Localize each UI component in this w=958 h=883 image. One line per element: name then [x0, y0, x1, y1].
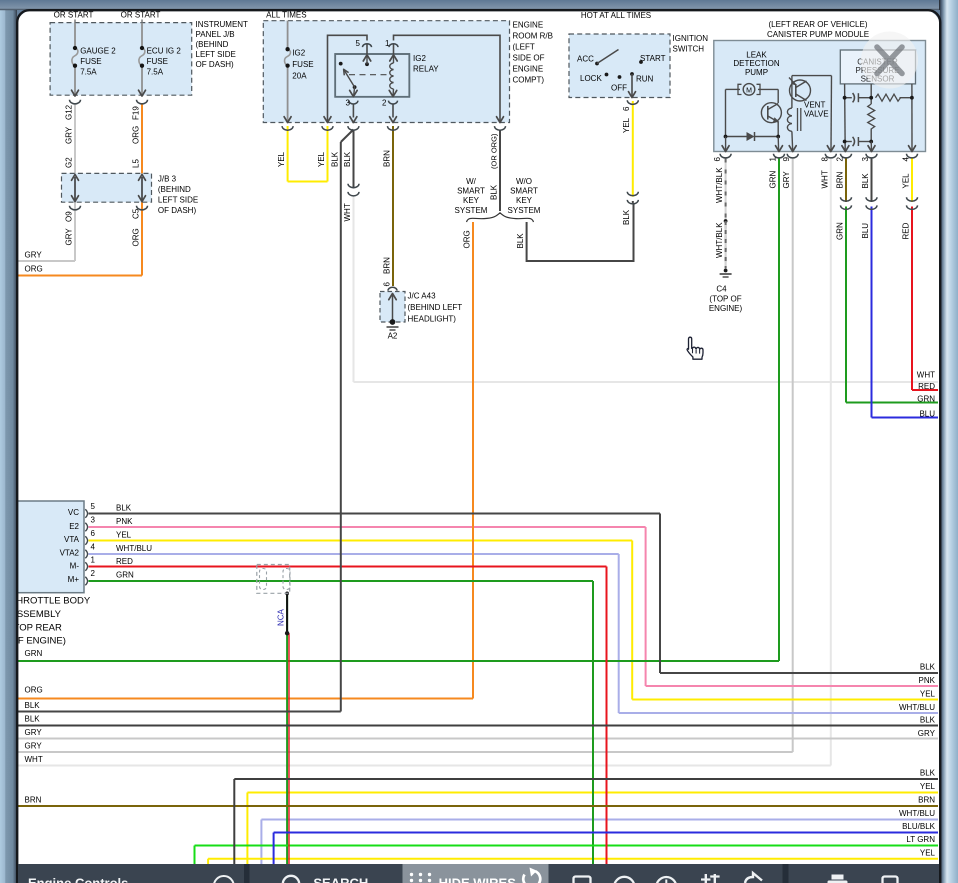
svg-text:OF ENGINE): OF ENGINE): [11, 636, 66, 647]
svg-text:FUSE: FUSE: [80, 57, 101, 66]
svg-text:6: 6: [383, 282, 392, 287]
svg-text:YEL: YEL: [116, 530, 132, 539]
svg-text:BLK: BLK: [920, 716, 936, 725]
svg-text:CANISTER PUMP MODULE: CANISTER PUMP MODULE: [767, 30, 869, 39]
svg-text:GRY: GRY: [25, 742, 43, 751]
svg-text:KEY: KEY: [516, 196, 533, 205]
svg-text:VTA: VTA: [64, 535, 80, 544]
svg-text:OR START: OR START: [54, 11, 94, 20]
svg-text:LEFT SIDE: LEFT SIDE: [196, 50, 236, 59]
svg-text:ROOM R/B: ROOM R/B: [513, 32, 553, 41]
svg-text:O9: O9: [65, 211, 74, 222]
svg-text:7.5A: 7.5A: [80, 68, 97, 77]
svg-text:BRN: BRN: [383, 150, 392, 167]
svg-text:M+: M+: [68, 575, 80, 584]
svg-text:ORG: ORG: [132, 228, 141, 246]
svg-text:A2: A2: [388, 332, 398, 341]
svg-text:GRY: GRY: [25, 728, 43, 737]
svg-text:SYSTEM: SYSTEM: [508, 206, 541, 215]
svg-text:OF DASH): OF DASH): [196, 60, 235, 69]
svg-text:YEL: YEL: [920, 849, 936, 858]
svg-text:ORG: ORG: [463, 230, 472, 248]
svg-text:PNK: PNK: [116, 517, 133, 526]
svg-text:F19: F19: [132, 106, 141, 120]
svg-text:J/B 3: J/B 3: [158, 175, 177, 184]
svg-text:GRY: GRY: [782, 171, 791, 189]
svg-text:DETECTION: DETECTION: [733, 59, 779, 68]
svg-text:4: 4: [902, 157, 911, 162]
svg-text:GAUGE 2: GAUGE 2: [80, 47, 116, 56]
svg-text:BRN: BRN: [835, 171, 844, 188]
svg-text:1: 1: [385, 39, 390, 48]
svg-text:BRN: BRN: [25, 796, 42, 805]
svg-text:WHT: WHT: [25, 755, 43, 764]
svg-text:ENGINE: ENGINE: [513, 65, 544, 74]
svg-text:WHT/BLU: WHT/BLU: [116, 544, 152, 553]
svg-text:5: 5: [91, 502, 96, 511]
svg-text:(LEFT REAR OF VEHICLE): (LEFT REAR OF VEHICLE): [769, 20, 868, 29]
svg-text:SMART: SMART: [510, 187, 538, 196]
svg-text:BLK: BLK: [516, 233, 525, 249]
svg-text:WHT/BLK: WHT/BLK: [715, 167, 724, 203]
svg-text:PNK: PNK: [919, 676, 936, 685]
svg-text:(LEFT: (LEFT: [513, 43, 535, 52]
svg-text:ORG: ORG: [132, 126, 141, 144]
svg-text:BLK: BLK: [116, 504, 132, 513]
svg-text:NCA: NCA: [277, 608, 286, 626]
svg-text:3: 3: [346, 99, 351, 108]
svg-text:GRY: GRY: [25, 251, 43, 260]
svg-text:YEL: YEL: [277, 151, 286, 167]
svg-text:LOCK: LOCK: [580, 74, 602, 83]
svg-text:2: 2: [91, 569, 96, 578]
svg-text:YEL: YEL: [920, 690, 936, 699]
svg-text:BLK: BLK: [861, 173, 870, 189]
svg-text:(BEHIND: (BEHIND: [158, 185, 191, 194]
svg-text:OFF: OFF: [611, 84, 627, 93]
svg-text:G12: G12: [65, 104, 74, 120]
svg-text:(BEHIND: (BEHIND: [196, 40, 229, 49]
svg-text:YEL: YEL: [902, 173, 911, 189]
svg-text:GRN: GRN: [769, 171, 778, 189]
svg-text:SMART: SMART: [457, 187, 485, 196]
svg-text:BLK: BLK: [622, 209, 631, 225]
svg-text:LEFT SIDE: LEFT SIDE: [158, 196, 198, 205]
svg-text:LT GRN: LT GRN: [906, 835, 935, 844]
svg-text:IG2: IG2: [292, 49, 305, 58]
svg-text:IGNITION: IGNITION: [673, 34, 709, 43]
svg-text:20A: 20A: [292, 72, 307, 81]
svg-text:WHT/BLU: WHT/BLU: [899, 703, 935, 712]
svg-text:(BEHIND LEFT: (BEHIND LEFT: [408, 303, 463, 312]
svg-text:(OR ORG): (OR ORG): [490, 133, 499, 169]
svg-text:IG2: IG2: [413, 54, 426, 63]
svg-text:BLK: BLK: [920, 769, 936, 778]
svg-text:BRN: BRN: [918, 796, 935, 805]
svg-text:FUSE: FUSE: [147, 57, 168, 66]
svg-text:ECU IG 2: ECU IG 2: [147, 47, 182, 56]
svg-text:3: 3: [91, 516, 96, 525]
svg-text:GRN: GRN: [25, 649, 43, 658]
svg-text:YEL: YEL: [317, 151, 326, 167]
svg-text:COMPT): COMPT): [513, 76, 545, 85]
svg-text:WHT/BLU: WHT/BLU: [899, 809, 935, 818]
svg-text:START: START: [640, 54, 666, 63]
svg-text:BLU: BLU: [861, 223, 870, 239]
svg-text:YEL: YEL: [920, 782, 936, 791]
svg-text:3: 3: [861, 157, 870, 162]
svg-text:W/O: W/O: [516, 177, 532, 186]
svg-text:ENGINE): ENGINE): [709, 304, 743, 313]
svg-text:Engine Controls: Engine Controls: [28, 876, 128, 883]
svg-text:6: 6: [91, 529, 96, 538]
svg-text:BLK: BLK: [25, 701, 41, 710]
svg-text:ENGINE: ENGINE: [513, 21, 544, 30]
svg-text:1: 1: [769, 157, 778, 162]
svg-text:SIDE OF: SIDE OF: [513, 54, 545, 63]
svg-text:WHT/BLK: WHT/BLK: [715, 222, 724, 258]
svg-text:VENT: VENT: [804, 101, 825, 110]
svg-text:6: 6: [713, 157, 722, 162]
svg-text:BLU: BLU: [919, 410, 935, 419]
svg-text:WHT: WHT: [820, 170, 829, 188]
svg-text:FUSE: FUSE: [292, 60, 313, 69]
svg-text:E2: E2: [69, 522, 79, 531]
svg-text:RED: RED: [918, 382, 935, 391]
svg-text:WHT: WHT: [917, 371, 935, 380]
svg-text:GRY: GRY: [65, 228, 74, 246]
svg-text:BRN: BRN: [383, 257, 392, 274]
svg-text:C4: C4: [716, 285, 727, 294]
svg-text:GRN: GRN: [116, 570, 134, 579]
svg-text:ACC: ACC: [577, 55, 594, 64]
svg-text:G2: G2: [65, 157, 74, 168]
svg-text:2: 2: [382, 99, 387, 108]
svg-text:W/: W/: [466, 177, 477, 186]
svg-text:BLK: BLK: [490, 184, 499, 200]
svg-text:7.5A: 7.5A: [147, 68, 164, 77]
svg-text:PUMP: PUMP: [745, 68, 768, 77]
svg-text:C5: C5: [132, 208, 141, 219]
svg-text:4: 4: [91, 543, 96, 552]
svg-text:M: M: [746, 88, 752, 95]
svg-text:ORG: ORG: [25, 686, 43, 695]
svg-text:J/C A43: J/C A43: [408, 292, 437, 301]
svg-text:OR START: OR START: [121, 11, 161, 20]
svg-text:HIDE WIRES: HIDE WIRES: [439, 876, 517, 883]
svg-text:ORG: ORG: [25, 265, 43, 274]
svg-text:GRY: GRY: [65, 126, 74, 144]
svg-text:HOT AT ALL TIMES: HOT AT ALL TIMES: [581, 11, 651, 20]
svg-text:ALL TIMES: ALL TIMES: [266, 11, 306, 20]
svg-text:1: 1: [91, 556, 96, 565]
svg-text:GRY: GRY: [918, 729, 936, 738]
svg-text:SYSTEM: SYSTEM: [455, 206, 488, 215]
svg-text:GRN: GRN: [917, 395, 935, 404]
svg-text:VALVE: VALVE: [804, 110, 829, 119]
svg-text:M-: M-: [70, 562, 80, 571]
svg-text:VTA2: VTA2: [60, 549, 80, 558]
svg-text:(TOP OF: (TOP OF: [709, 295, 741, 304]
svg-text:BLU/BLK: BLU/BLK: [902, 822, 936, 831]
svg-text:BLK: BLK: [25, 715, 41, 724]
svg-text:THROTTLE BODY: THROTTLE BODY: [11, 596, 91, 607]
svg-text:6: 6: [622, 106, 631, 111]
svg-text:PANEL J/B: PANEL J/B: [196, 30, 235, 39]
svg-text:HEADLIGHT): HEADLIGHT): [408, 315, 457, 324]
svg-text:BLK: BLK: [330, 151, 339, 167]
svg-text:5: 5: [356, 39, 361, 48]
svg-text:WHT: WHT: [343, 203, 352, 221]
svg-text:L5: L5: [132, 159, 141, 168]
svg-text:RUN: RUN: [636, 75, 654, 84]
svg-text:OF DASH): OF DASH): [158, 206, 197, 215]
svg-text:2: 2: [835, 157, 844, 162]
svg-text:SEARCH: SEARCH: [313, 876, 368, 883]
svg-text:RELAY: RELAY: [413, 65, 439, 74]
svg-text:SWITCH: SWITCH: [673, 45, 705, 54]
svg-text:8: 8: [820, 157, 829, 162]
svg-text:VC: VC: [68, 508, 79, 517]
svg-text:KEY: KEY: [463, 196, 480, 205]
svg-text:BLK: BLK: [343, 151, 352, 167]
svg-text:INSTRUMENT: INSTRUMENT: [196, 20, 249, 29]
svg-text:9: 9: [782, 157, 791, 162]
svg-text:RED: RED: [116, 557, 133, 566]
svg-text:RED: RED: [902, 222, 911, 239]
svg-text:YEL: YEL: [622, 117, 631, 133]
svg-text:BLK: BLK: [920, 663, 936, 672]
svg-text:GRN: GRN: [835, 222, 844, 240]
